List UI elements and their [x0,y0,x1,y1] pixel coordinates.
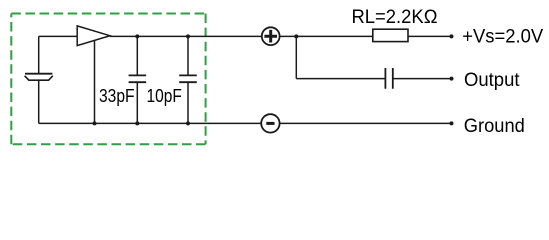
wire branch down to output line [295,36,297,78]
terminal dot Vs [450,34,454,38]
junction dot cap1 top [135,34,139,38]
wire C1 top lead [136,36,138,75]
wire minus node to ground terminal [280,122,452,124]
wire input to amplifier [39,35,77,37]
junction dot cap2 top [186,34,190,38]
wire plus node to resistor [280,35,373,37]
op-amp U1 inverter triangle [77,26,110,46]
wire resistor to Vs terminal [408,35,452,37]
wire C1 bottom lead [136,83,138,124]
svg-text:+Vs=2.0V: +Vs=2.0V [462,26,543,47]
node plus terminal circle [262,27,280,45]
wire amplifier output to plus node [110,35,262,37]
capacitor C2 10pF plates [179,75,197,82]
crystal X1 bottom cup plate [25,76,53,80]
junction dot cap1 rail [135,121,139,125]
terminal dot ground [450,121,454,125]
svg-text:Ground: Ground [464,116,525,137]
wire C2 top lead [187,36,189,75]
terminal dot output [450,77,454,81]
oscillator module dashed box [11,14,205,145]
junction dot cap2 rail [186,121,190,125]
svg-text:33pF: 33pF [99,86,135,106]
wire output line to coupling cap [296,78,385,80]
node minus terminal circle [261,114,279,132]
svg-text:10pF: 10pF [147,86,182,106]
wire crystal to bottom rail [38,81,40,124]
resistor RL body [373,29,408,41]
wire C2 bottom lead [187,83,189,124]
wire feedback from triangle to rail [94,40,96,123]
crystal X1 top plate [25,73,52,75]
junction dot feedback rail [93,121,97,125]
svg-text:Output: Output [464,70,520,91]
junction dot output branch [294,34,298,38]
wire bottom rail to minus node [39,122,262,124]
wire coupling cap to output terminal [393,78,452,80]
capacitor C1 33pF plates [129,75,147,82]
svg-text:RL=2.2KΩ: RL=2.2KΩ [352,7,438,28]
wire left branch down to crystal [38,36,40,73]
coupling capacitor C3 plates [385,68,392,89]
